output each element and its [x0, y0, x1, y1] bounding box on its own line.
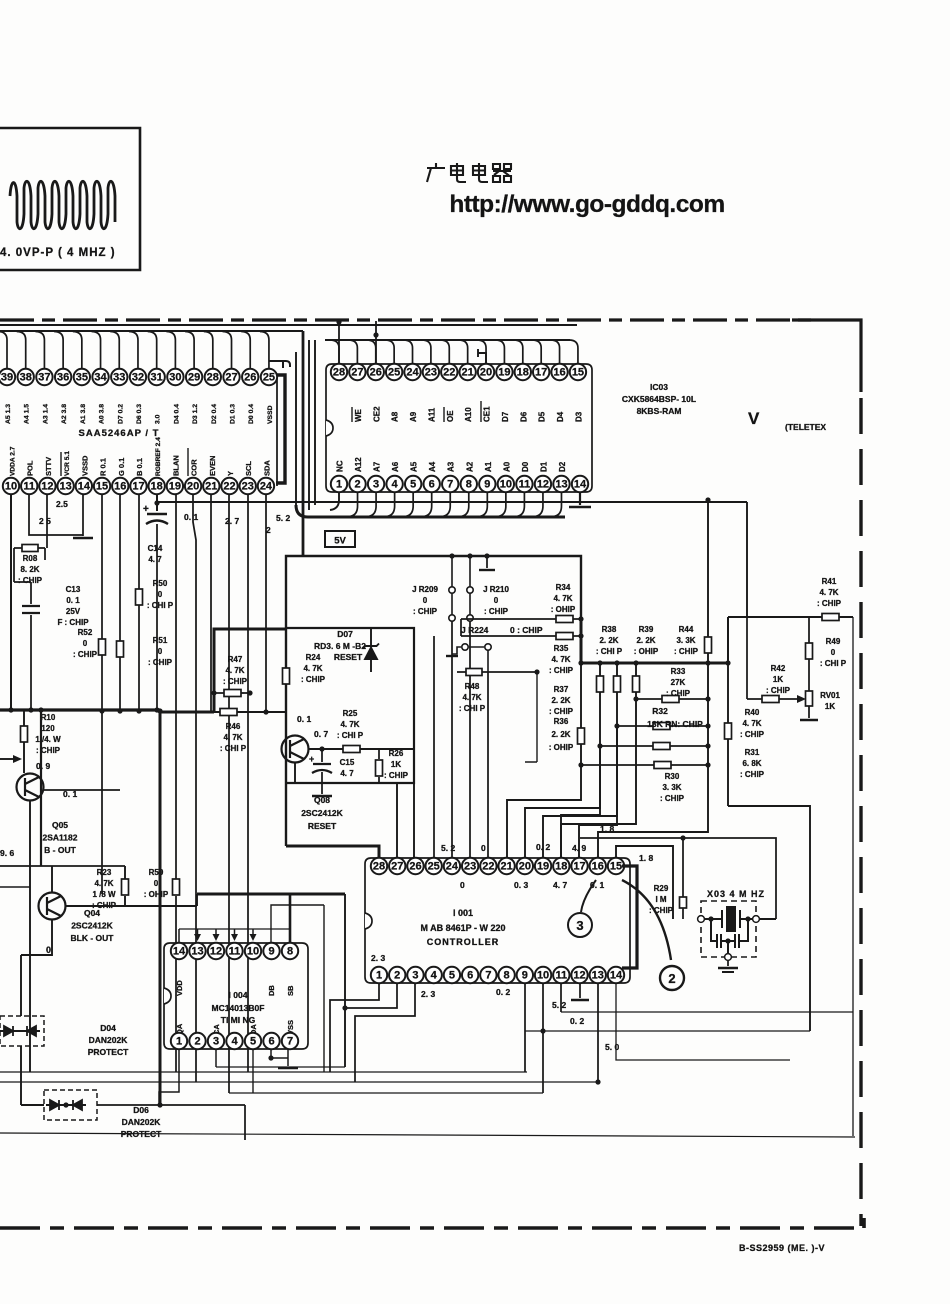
svg-text:22: 22	[482, 861, 494, 873]
svg-text:R40: R40	[745, 708, 760, 717]
D07 labels	[337, 629, 353, 639]
wire JR224 row	[461, 635, 581, 637]
svg-text:5. 2: 5. 2	[276, 513, 290, 523]
R23 label	[92, 868, 117, 910]
svg-text:RD3. 6 M -B2: RD3. 6 M -B2	[314, 641, 366, 651]
svg-text:10: 10	[500, 479, 512, 491]
svg-text:VCR 5.1: VCR 5.1	[64, 451, 71, 476]
svg-text:A1 3.8: A1 3.8	[80, 404, 87, 424]
main thick net bus	[581, 619, 728, 663]
svg-text:4. 7K: 4. 7K	[742, 719, 761, 728]
svg-text:16: 16	[592, 861, 604, 873]
R29 resistor	[682, 838, 684, 919]
svg-text:4. 0VP-P ( 4 MHZ ): 4. 0VP-P ( 4 MHZ )	[0, 247, 116, 259]
svg-text:R26: R26	[389, 749, 404, 758]
svg-text:: CHIP: : CHIP	[666, 689, 691, 698]
svg-text:RV01: RV01	[820, 691, 840, 700]
svg-text:13: 13	[60, 481, 72, 493]
jumper pair with ground stub	[452, 644, 491, 672]
svg-text:16: 16	[114, 481, 126, 493]
svg-text:A5: A5	[410, 461, 419, 472]
diode pair D06	[46, 1100, 86, 1110]
svg-text:D0 0.4: D0 0.4	[248, 404, 255, 424]
svg-text:1: 1	[336, 479, 342, 491]
wires above I004 with arrows	[198, 929, 254, 936]
svg-text:: OHIP: : OHIP	[549, 743, 574, 752]
wire I001 pin10 down	[542, 983, 544, 1093]
svg-text:12: 12	[41, 481, 53, 493]
resistor R48 row	[457, 671, 537, 673]
svg-text:R52: R52	[78, 628, 93, 637]
R31 label	[740, 748, 765, 779]
svg-text:3: 3	[213, 1036, 219, 1048]
svg-text:31: 31	[151, 372, 163, 384]
svg-text:4. 7K: 4. 7K	[223, 733, 242, 742]
svg-text:A8: A8	[391, 411, 400, 422]
svg-text:23: 23	[425, 367, 437, 379]
I001 top pin row 28-15	[371, 858, 624, 874]
R47 label	[223, 655, 248, 686]
svg-text:14: 14	[574, 479, 587, 491]
svg-text:R23: R23	[97, 868, 112, 877]
svg-text:0: 0	[158, 590, 163, 599]
svg-text:2. 3: 2. 3	[421, 989, 435, 999]
wires I001 pins 25 24 23 up	[433, 636, 435, 858]
resistor R52	[101, 494, 103, 894]
wire I001 pin13 down	[597, 983, 599, 1082]
svg-text:2: 2	[354, 479, 360, 491]
svg-text:21: 21	[500, 861, 512, 873]
page border top-right corner	[792, 320, 861, 392]
svg-text:27: 27	[391, 861, 403, 873]
svg-text:I 001: I 001	[453, 908, 473, 918]
IC03 name label	[622, 382, 696, 416]
svg-text:0: 0	[46, 945, 51, 955]
page border right dashed	[859, 398, 862, 1226]
net vertical R44	[707, 500, 709, 765]
wire D06 right link	[97, 1105, 245, 1140]
resistor R59	[175, 494, 177, 1072]
svg-text:: CHIP: : CHIP	[549, 707, 574, 716]
Q05 label	[43, 820, 78, 855]
svg-text:26: 26	[409, 861, 421, 873]
svg-text:120: 120	[41, 724, 55, 733]
R10 label	[35, 713, 61, 755]
wire IC03 pin1 drop	[330, 492, 339, 510]
header chinese logo 广电电器 (hand-drawn strokes)	[427, 163, 511, 182]
I004 top pin row	[171, 943, 298, 959]
svg-text:1. 8: 1. 8	[639, 853, 653, 863]
svg-text:R42: R42	[771, 664, 786, 673]
svg-text:R50: R50	[153, 579, 168, 588]
R30 label	[660, 772, 685, 803]
svg-text:9: 9	[268, 946, 274, 958]
svg-text:4. 7: 4. 7	[148, 555, 162, 564]
R30 row	[581, 764, 708, 766]
svg-text:VSSD: VSSD	[267, 405, 274, 424]
C13 label	[57, 585, 89, 627]
wire D06 left link	[21, 1104, 44, 1106]
wire I004 pin3 down	[215, 1049, 217, 1067]
net vertical third staircase	[635, 663, 637, 699]
svg-text:CXK5864BSP- 10L: CXK5864BSP- 10L	[622, 394, 696, 404]
svg-text:J R210: J R210	[483, 585, 509, 594]
svg-text:24: 24	[406, 367, 419, 379]
oscilloscope waveform box	[0, 128, 140, 270]
svg-text:R 0.1: R 0.1	[99, 458, 108, 476]
D04 label	[88, 1023, 129, 1057]
svg-text:17: 17	[573, 861, 585, 873]
crystal loop top wire	[580, 838, 776, 919]
wire D04 to lines	[20, 1046, 22, 1105]
svg-text:A6: A6	[391, 461, 400, 472]
svg-text:2. 7: 2. 7	[225, 516, 239, 526]
resistor R47 branch	[214, 692, 250, 694]
svg-text:4. 7K: 4. 7K	[462, 693, 481, 702]
bus wire upper horizontal	[0, 324, 577, 326]
svg-text:RGBREF 2.4: RGBREF 2.4	[155, 437, 162, 476]
svg-text:A10: A10	[464, 407, 473, 422]
svg-text:4. 7: 4. 7	[340, 769, 354, 778]
svg-text:5: 5	[410, 479, 416, 491]
svg-text:15: 15	[572, 367, 584, 379]
svg-text:29: 29	[188, 372, 200, 384]
wire left exit at 866	[0, 865, 125, 867]
svg-text:R24: R24	[306, 653, 321, 662]
crystal X03 dashed box	[701, 901, 756, 957]
svg-text:I 004: I 004	[229, 990, 248, 1000]
svg-text:A4: A4	[428, 461, 437, 472]
transistor Q08 2SC2412K	[282, 736, 309, 763]
svg-text:4: 4	[392, 479, 399, 491]
wire fan above SAA5246 top pins	[0, 332, 269, 370]
svg-text:18: 18	[555, 861, 567, 873]
thick wire into I001 pin28	[286, 846, 379, 858]
svg-text:0 : CHIP: 0 : CHIP	[510, 625, 543, 635]
svg-text:2. 2K: 2. 2K	[551, 696, 570, 705]
svg-text:8: 8	[466, 479, 472, 491]
svg-text:: CHIP: : CHIP	[549, 666, 574, 675]
svg-text:F : CHIP: F : CHIP	[57, 618, 89, 627]
svg-text:8: 8	[504, 970, 510, 982]
svg-text:X03 4 M HZ: X03 4 M HZ	[707, 889, 765, 899]
wire I004 pin1 down	[159, 1049, 179, 1105]
Q04 wires	[66, 905, 125, 907]
svg-text:: OHIP: : OHIP	[634, 647, 659, 656]
svg-text:27: 27	[225, 372, 237, 384]
svg-text:11: 11	[23, 481, 35, 493]
svg-text:13: 13	[191, 946, 203, 958]
Q05 base arrow	[0, 758, 14, 760]
svg-text:VSSD: VSSD	[80, 455, 89, 476]
IC03 bottom pin labels	[336, 457, 567, 472]
svg-text:Q08: Q08	[314, 795, 330, 805]
R29 label	[649, 884, 674, 915]
IC03 top pin labels	[354, 406, 584, 422]
svg-text:R49: R49	[826, 637, 841, 646]
net vertical R39 staircase to pin17	[579, 663, 617, 858]
svg-text:1: 1	[376, 970, 382, 982]
5V supply box	[325, 531, 355, 547]
svg-text:25: 25	[388, 367, 400, 379]
svg-text:D2: D2	[558, 461, 567, 472]
svg-text:COR: COR	[190, 459, 199, 476]
R51 label	[148, 636, 173, 667]
svg-text:C15: C15	[340, 758, 355, 767]
svg-text:RESET: RESET	[308, 821, 337, 831]
wire Q08 emitter	[294, 762, 296, 783]
svg-text:8. 2K: 8. 2K	[20, 565, 39, 574]
svg-text:R35: R35	[554, 644, 569, 653]
R59 label	[144, 868, 169, 899]
thick wire rail up to D07 box	[214, 629, 286, 712]
svg-text:38: 38	[20, 372, 32, 384]
I004 name labels	[229, 990, 248, 1000]
SAA5246 top pin labels	[5, 404, 274, 424]
svg-text:3: 3	[412, 970, 418, 982]
svg-text:: CHIP: : CHIP	[301, 675, 326, 684]
svg-text:7: 7	[447, 479, 453, 491]
svg-text:3: 3	[373, 479, 379, 491]
svg-text:R34: R34	[556, 583, 571, 592]
svg-text:B-SS2959 (ME. )-V: B-SS2959 (ME. )-V	[739, 1243, 825, 1253]
resistor R46 on rail	[214, 711, 286, 713]
svg-text:A3: A3	[447, 461, 456, 472]
R39 label	[634, 625, 659, 656]
svg-text:PROTECT: PROTECT	[88, 1047, 129, 1057]
svg-text:10: 10	[537, 970, 549, 982]
bus wire IC03 fan to bundle	[325, 339, 570, 341]
svg-text:0: 0	[460, 880, 465, 890]
svg-text:D3 1.2: D3 1.2	[192, 404, 199, 424]
svg-text:A0 3.8: A0 3.8	[99, 404, 106, 424]
svg-text:27K: 27K	[671, 678, 686, 687]
svg-text:VDDA 2.7: VDDA 2.7	[10, 446, 17, 476]
bus riser wire to 5V rail	[302, 331, 305, 556]
svg-text:SDA: SDA	[262, 460, 271, 476]
svg-text:DB: DB	[267, 985, 276, 996]
svg-text:2: 2	[266, 525, 271, 535]
svg-text:1 /8 W: 1 /8 W	[92, 890, 116, 899]
I004 bottom pin row	[171, 1033, 298, 1049]
wire SAA pin10 down	[10, 494, 12, 710]
svg-text:19: 19	[498, 367, 510, 379]
svg-text:: CHIP: : CHIP	[674, 647, 699, 656]
circled 2 callout with curved arrow	[622, 880, 684, 990]
R42 box wires	[727, 617, 729, 663]
svg-text:13: 13	[555, 479, 567, 491]
wire I001 pin2 down-left	[345, 983, 397, 1008]
svg-text:19: 19	[537, 861, 549, 873]
svg-text:WE: WE	[354, 408, 363, 422]
svg-text:13: 13	[592, 970, 604, 982]
svg-text:R30: R30	[665, 772, 680, 781]
wire R34 row	[461, 619, 581, 636]
svg-text:6: 6	[429, 479, 435, 491]
wire rail drop to Q04	[40, 710, 42, 866]
svg-text:0: 0	[481, 843, 486, 853]
crystal element	[701, 907, 776, 931]
svg-text:R25: R25	[343, 709, 358, 718]
svg-text:EVEN: EVEN	[208, 456, 217, 476]
wire 1027 row	[525, 1030, 810, 1032]
resistor R24 on box edge	[283, 668, 290, 684]
svg-text:2. 2K: 2. 2K	[636, 636, 655, 645]
capacitor C15 electrolytic	[321, 749, 323, 794]
svg-text:: CHI P: : CHI P	[220, 744, 247, 753]
I001 name labels	[453, 908, 473, 918]
ground crystal	[727, 960, 729, 966]
R37 label	[549, 685, 574, 716]
svg-text:DAN202K: DAN202K	[122, 1117, 162, 1127]
svg-text:0. 1: 0. 1	[184, 512, 198, 522]
R08 label	[18, 554, 43, 585]
svg-text:R08: R08	[23, 554, 38, 563]
svg-text:D4: D4	[556, 411, 565, 422]
svg-text:28: 28	[333, 367, 345, 379]
R26 label	[384, 749, 409, 780]
R50 label	[147, 579, 174, 610]
svg-text:12: 12	[573, 970, 585, 982]
svg-text:A2 3.8: A2 3.8	[61, 404, 68, 424]
svg-text:B 0.1: B 0.1	[135, 458, 144, 476]
svg-text:R39: R39	[639, 625, 654, 634]
svg-text:D06: D06	[133, 1105, 149, 1115]
svg-text:9. 6: 9. 6	[0, 848, 14, 858]
svg-text:17: 17	[535, 367, 547, 379]
svg-text:A2: A2	[465, 461, 474, 472]
svg-text:25: 25	[428, 861, 440, 873]
svg-text:D3: D3	[574, 411, 583, 422]
svg-text:: CHIP: : CHIP	[384, 771, 409, 780]
wire CE1 hook above pin20	[478, 349, 486, 364]
svg-text:25: 25	[263, 372, 275, 384]
wire fan above IC03 top pins	[330, 340, 578, 364]
wire pin15 R29 1.8 branch	[616, 846, 673, 919]
resistor R49	[808, 617, 810, 691]
svg-text:0: 0	[831, 648, 836, 657]
wire I001 pin3 down-left	[355, 983, 415, 1082]
svg-text:: CHIP: : CHIP	[740, 730, 765, 739]
svg-text:TI MI NG: TI MI NG	[221, 1015, 256, 1025]
svg-text:: CHIP: : CHIP	[413, 607, 438, 616]
svg-text:: CHI P: : CHI P	[596, 647, 623, 656]
module box outline	[286, 556, 581, 846]
svg-text:CONTROLLER: CONTROLLER	[427, 937, 500, 947]
wire SAA pin18 RGBREF to node	[156, 494, 158, 511]
svg-text:15: 15	[96, 481, 108, 493]
svg-text:39: 39	[1, 372, 13, 384]
svg-text:A5 1.3: A5 1.3	[5, 404, 12, 424]
wire 1012 row	[561, 1011, 853, 1013]
svg-text:2. 3: 2. 3	[371, 953, 385, 963]
svg-text:D6: D6	[519, 411, 528, 422]
SAA5246 bottom pin row 10-24	[3, 478, 274, 494]
R42 label	[766, 664, 791, 695]
svg-text:D07: D07	[337, 629, 353, 639]
diode D06 dashed box	[44, 1090, 97, 1120]
svg-text:9: 9	[522, 970, 528, 982]
ground I001 pin12	[579, 983, 581, 998]
svg-text:D04: D04	[100, 1023, 116, 1033]
resistor R23	[124, 866, 126, 906]
svg-text:2 5: 2 5	[39, 516, 51, 526]
svg-text:2: 2	[194, 1036, 200, 1048]
svg-text:33: 33	[113, 372, 125, 384]
svg-text:: CHIP: : CHIP	[649, 906, 674, 915]
transistor Q04 2SC2412K	[39, 893, 66, 920]
wire C14 bottom	[156, 524, 158, 710]
svg-text:A11: A11	[427, 407, 436, 422]
svg-text:0. 2: 0. 2	[570, 1016, 584, 1026]
svg-text:D5: D5	[538, 411, 547, 422]
resistor R51	[119, 494, 121, 712]
thick bus Q04 to I004	[197, 893, 345, 896]
svg-text:6: 6	[268, 1036, 274, 1048]
svg-text:28: 28	[373, 861, 385, 873]
svg-text:20: 20	[187, 481, 199, 493]
svg-text:5. 2: 5. 2	[441, 843, 455, 853]
resistor R26	[378, 749, 380, 783]
svg-text:4. 7K: 4. 7K	[340, 720, 359, 729]
svg-text:A7: A7	[373, 461, 382, 472]
wire Q08 collector with resistor R25	[309, 748, 414, 750]
svg-text:C13: C13	[66, 585, 81, 594]
svg-text:2. 2K: 2. 2K	[599, 636, 618, 645]
svg-text:CE2: CE2	[372, 406, 381, 422]
wire SAA pin22 Y down	[228, 494, 230, 1093]
svg-text:R31: R31	[745, 748, 760, 757]
ground SAA pin14	[82, 494, 84, 536]
wire left exit 887	[0, 886, 30, 888]
C14 label	[148, 544, 163, 564]
svg-text:5: 5	[449, 970, 455, 982]
wire SAA pin23 SCL down	[247, 494, 249, 1072]
svg-text:4. 7K: 4. 7K	[819, 588, 838, 597]
svg-text:: OHIP: : OHIP	[144, 890, 169, 899]
svg-text:3: 3	[576, 918, 583, 933]
svg-text:: CHIP: : CHIP	[484, 607, 509, 616]
capacitor C14 electrolytic	[146, 514, 168, 524]
wire R48 right branch down	[525, 672, 537, 762]
svg-text:: CHIP: : CHIP	[740, 770, 765, 779]
svg-text:12: 12	[210, 946, 222, 958]
svg-text:(TELETEX: (TELETEX	[785, 422, 826, 432]
svg-text:11: 11	[555, 970, 567, 982]
svg-text:R33: R33	[671, 667, 686, 676]
svg-text:: CHIP: : CHIP	[766, 686, 791, 695]
svg-text:R44: R44	[679, 625, 694, 634]
right long vertical	[852, 617, 854, 1136]
R52 label	[73, 628, 98, 659]
svg-text:R46: R46	[226, 722, 241, 731]
R35 label	[549, 644, 574, 675]
svg-text:0. 1: 0. 1	[63, 789, 77, 799]
svg-text:14: 14	[173, 946, 186, 958]
trimmer RV01	[806, 691, 813, 706]
resistor R08	[14, 547, 45, 549]
R41 label	[817, 577, 842, 608]
svg-text:A12: A12	[354, 457, 363, 472]
svg-text:34: 34	[94, 372, 107, 384]
svg-text:SAA5246AP / T: SAA5246AP / T	[79, 428, 160, 439]
svg-text:+: +	[143, 504, 149, 515]
svg-text:R10: R10	[41, 713, 56, 722]
svg-text:: CHI P: : CHI P	[459, 704, 486, 713]
svg-text:5. 0: 5. 0	[605, 1042, 619, 1052]
svg-text:20: 20	[519, 861, 531, 873]
svg-text:21: 21	[205, 481, 217, 493]
